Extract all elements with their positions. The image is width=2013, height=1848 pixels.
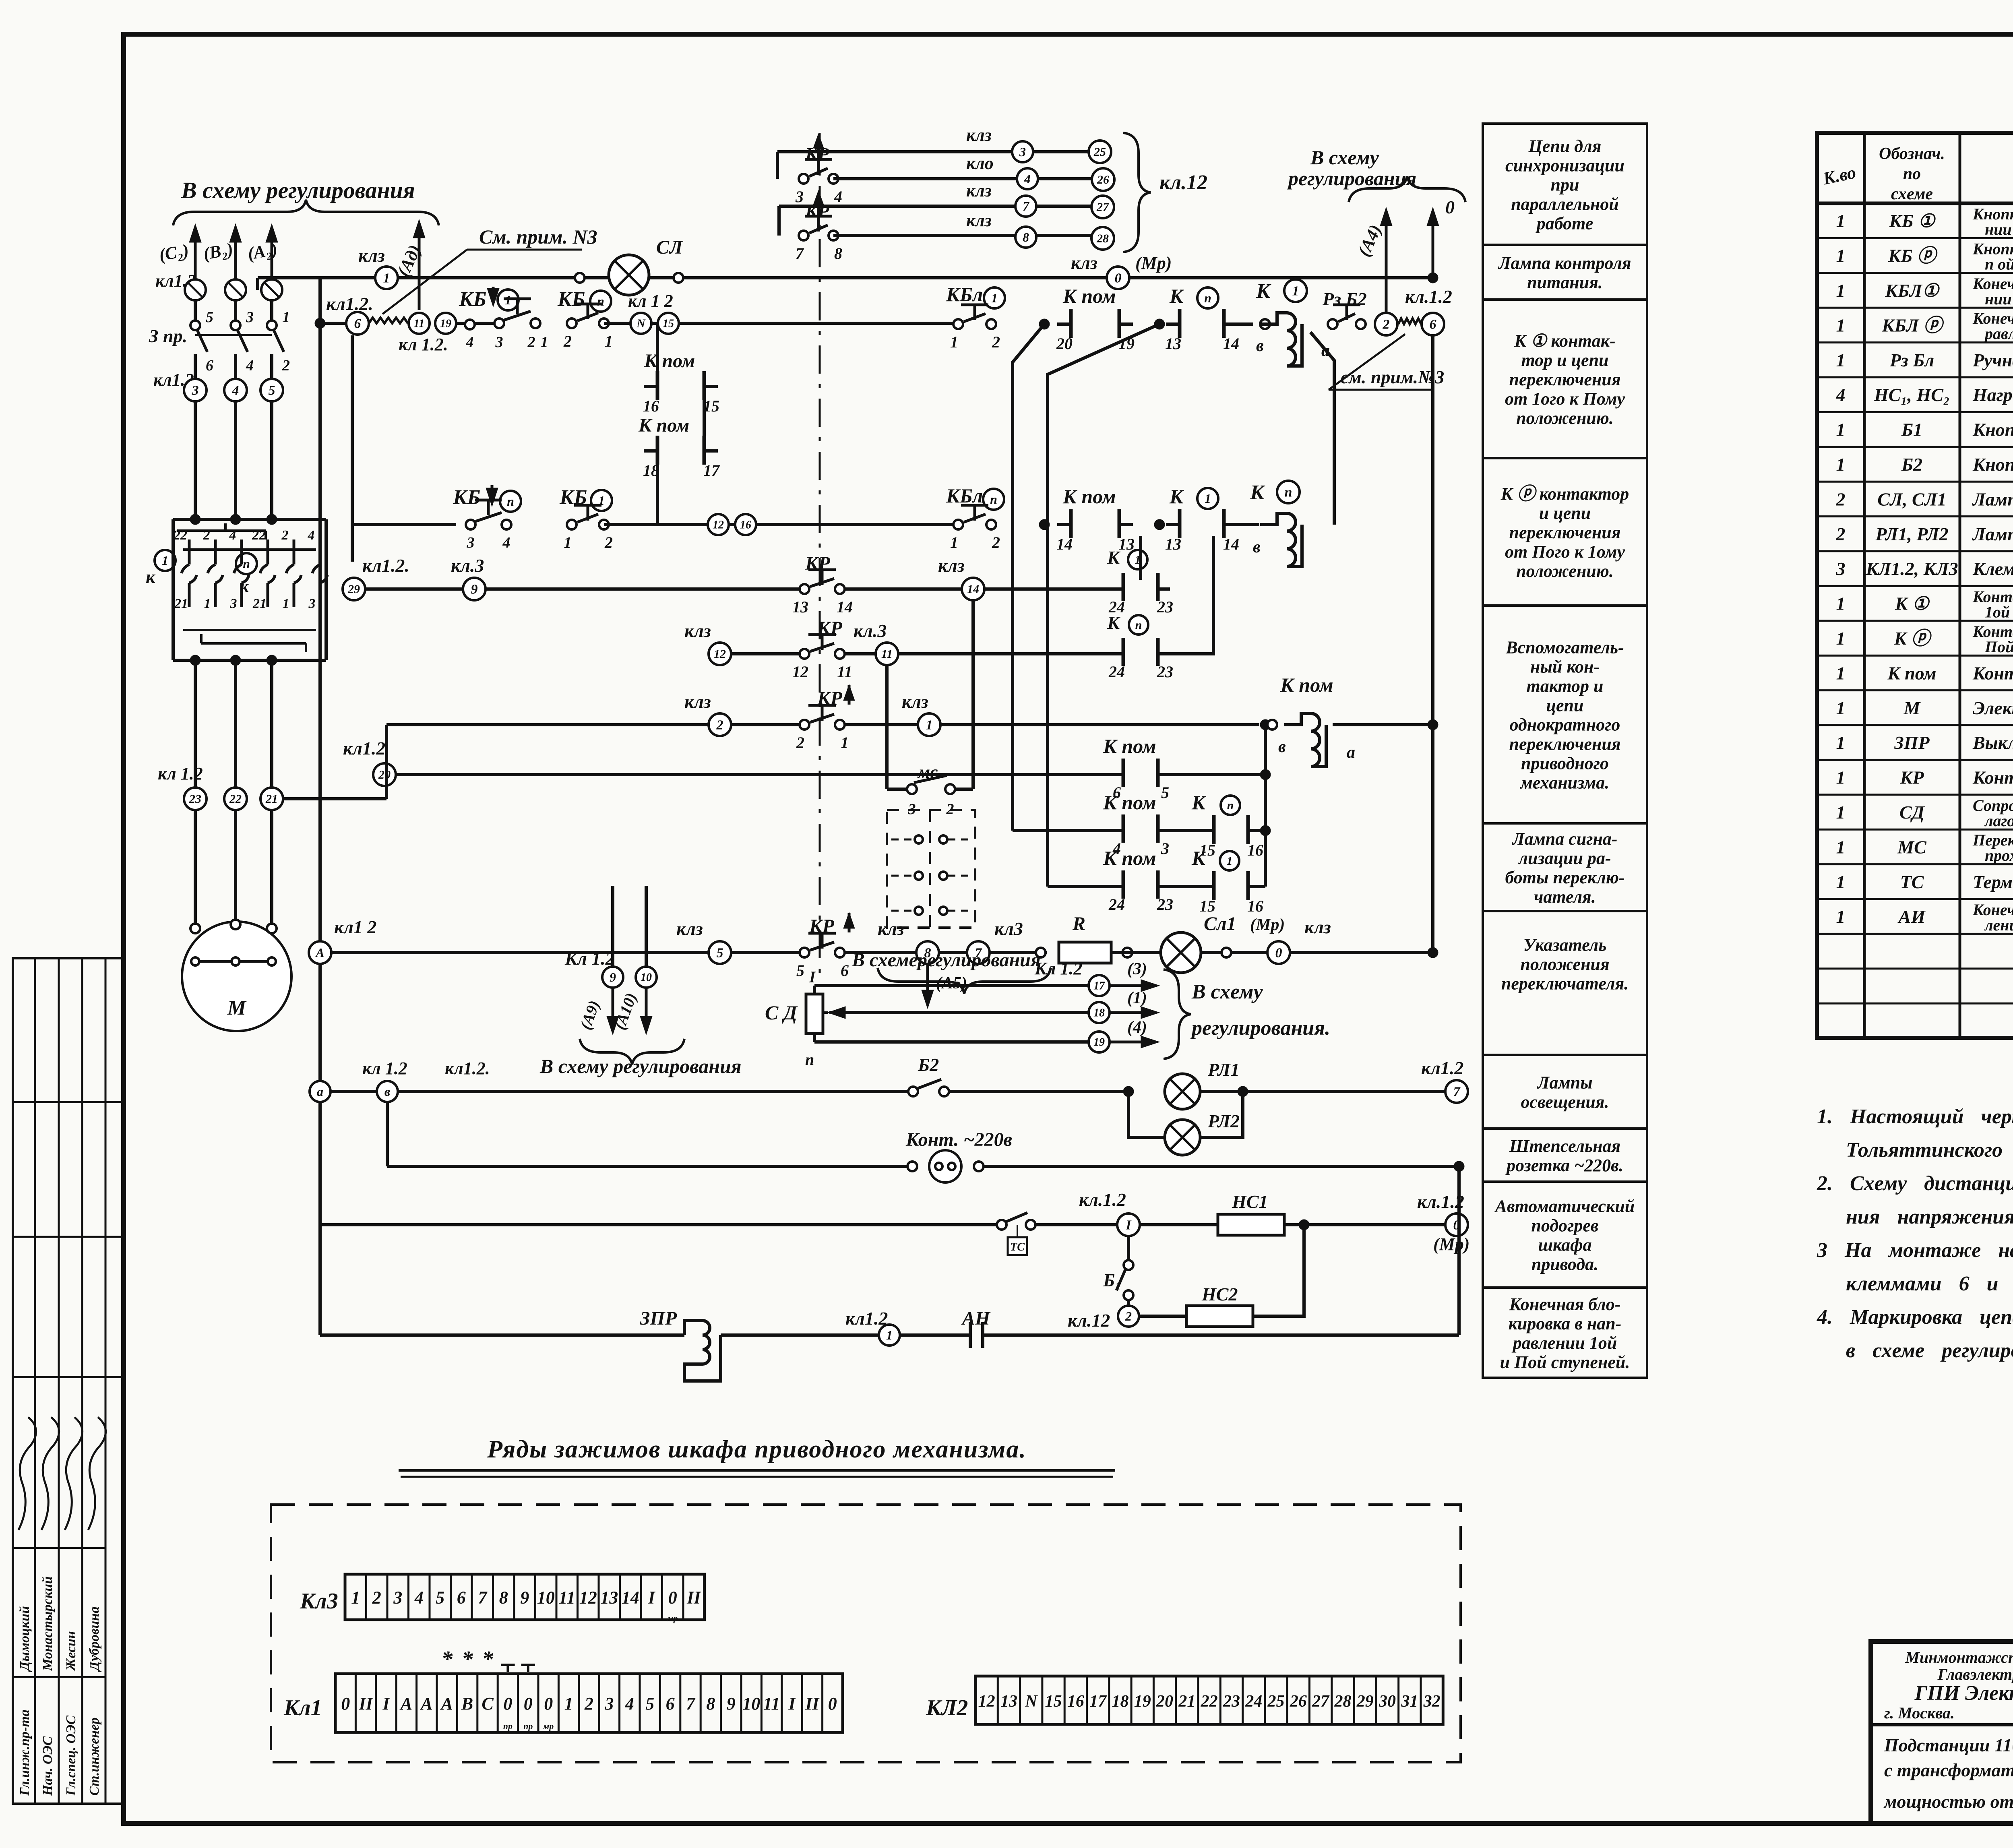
svg-text:кл1 2: кл1 2 (334, 917, 376, 937)
svg-text:R: R (1072, 913, 1085, 934)
svg-text:Конт. ~220в: Конт. ~220в (905, 1129, 1012, 1150)
junction row2 (1039, 519, 1050, 530)
controller contact KR 7-8 sync (796, 190, 842, 263)
svg-text:Жесин: Жесин (64, 1631, 79, 1672)
svg-text:СЛ, СЛ1: СЛ, СЛ1 (1877, 489, 1947, 509)
svg-text:Пой ступени.: Пой ступени. (1984, 638, 2013, 656)
svg-text:прохождения мертвых ступеней: прохождения мертвых ступеней (1985, 846, 2013, 864)
svg-text:лагометра.: лагометра. (1984, 812, 2013, 830)
svg-text:п ой ступени.: п ой ступени. (1985, 255, 2013, 273)
terminal rows title (399, 1436, 1115, 1477)
svg-text:6: 6 (354, 316, 361, 331)
svg-text:4: 4 (502, 534, 510, 551)
svg-text:1: 1 (1836, 802, 1846, 823)
svg-text:9: 9 (471, 582, 478, 597)
svg-text:КБ: КБ (557, 288, 585, 311)
svg-text:0: 0 (544, 1694, 553, 1714)
svg-text:1: 1 (1836, 872, 1846, 892)
svg-text:К: К (1191, 847, 1207, 869)
title block (1871, 1641, 2013, 1823)
svg-text:1: 1 (283, 596, 289, 611)
svg-text:7: 7 (686, 1694, 696, 1714)
svg-text:положению.: положению. (1516, 408, 1614, 428)
svg-text:привода.: привода. (1531, 1255, 1598, 1274)
svg-text:0: 0 (1115, 271, 1122, 286)
svg-text:Цепи для: Цепи для (1528, 136, 1602, 156)
svg-text:1: 1 (1836, 246, 1846, 266)
svg-text:Нагревательные сопротивления: Нагревательные сопротивления (1972, 384, 2013, 405)
svg-text:0: 0 (828, 1694, 837, 1714)
terminal kl1.2 (I) (1079, 1189, 1140, 1236)
protection trip ZPR (640, 1308, 721, 1381)
svg-text:11: 11 (837, 663, 852, 681)
svg-text:положению.: положению. (1516, 561, 1614, 581)
svg-text:8: 8 (499, 1588, 508, 1608)
svg-text:пр: пр (503, 1721, 513, 1731)
dead-step switch MC (887, 600, 975, 928)
svg-text:2: 2 (584, 1694, 593, 1714)
svg-text:2: 2 (372, 1588, 381, 1608)
svg-text:К: К (1256, 280, 1271, 303)
svg-text:В схему регулирования: В схему регулирования (539, 1055, 742, 1077)
wire row2 mid (604, 523, 958, 526)
wire row6 (396, 769, 1271, 780)
contact K (1) 24-23 (1107, 536, 1173, 616)
svg-text:шкафа: шкафа (1538, 1235, 1591, 1255)
svg-text:5: 5 (645, 1694, 654, 1714)
svg-text:С Д: С Д (765, 1001, 798, 1024)
svg-text:2. Схему дистанционного: 2. Схему дистанционного и автоматическог… (1817, 1172, 2013, 1195)
svg-text:Кнопка: Кнопка (1972, 420, 2013, 440)
svg-text:МС: МС (1897, 837, 1927, 857)
svg-text:3: 3 (393, 1588, 402, 1608)
svg-text:5: 5 (1161, 783, 1169, 802)
terminals kl1.2 (9)(10) with arrows (539, 886, 742, 1077)
svg-text:а: а (317, 1084, 323, 1099)
svg-text:клз: клз (1304, 917, 1331, 937)
svg-text:23: 23 (1157, 895, 1173, 914)
aux contactor Kpom contact 20-19 (1056, 285, 1135, 353)
svg-text:мощностью от 25 до 63 МВа: мощностью от 25 до 63 МВа (1883, 1791, 2013, 1812)
signal lamp SL1 (1161, 913, 1236, 973)
svg-text:26: 26 (1097, 173, 1109, 186)
svg-text:1: 1 (1836, 663, 1846, 683)
terminal kl1.2 (a) (310, 1058, 407, 1102)
svg-text:параллельной: параллельной (1511, 194, 1619, 214)
svg-text:регулирования.: регулирования. (1190, 1017, 1330, 1040)
svg-text:28: 28 (1334, 1692, 1351, 1711)
thermostat TS (997, 1213, 1035, 1255)
svg-text:27: 27 (1312, 1692, 1330, 1711)
svg-text:3: 3 (604, 1694, 614, 1714)
svg-text:переключения: переключения (1509, 734, 1620, 754)
svg-text:14: 14 (967, 583, 979, 596)
wire lamp row (331, 951, 1066, 954)
svg-text:Ручная блокировка: Ручная блокировка (1972, 350, 2013, 370)
svg-text:17: 17 (1093, 980, 1105, 992)
svg-text:равлении 1ой: равлении 1ой (1511, 1333, 1617, 1353)
svg-text:1: 1 (926, 718, 933, 733)
terminal kl1.2 (b) (377, 1058, 490, 1102)
see note 3 flag lower (1329, 334, 1444, 390)
terminal kl3 (5) (676, 918, 731, 964)
terminal kl1.2 (29) (343, 555, 409, 600)
svg-text:0: 0 (341, 1694, 350, 1714)
svg-text:в: в (1256, 337, 1264, 355)
svg-text:кл1.2.: кл1.2. (445, 1058, 490, 1078)
svg-text:II: II (686, 1588, 701, 1608)
svg-text:14: 14 (1056, 535, 1073, 553)
wire left vertical feeder (318, 278, 322, 1335)
terminal kl1 2 (A) (309, 917, 376, 964)
svg-text:1: 1 (1836, 280, 1846, 301)
aux contactor coil Kpom (1267, 674, 1438, 767)
aux contact Kpom 16-15 (643, 324, 719, 415)
svg-text:нии 1ой ступени.: нии 1ой ступени. (1985, 220, 2013, 238)
svg-text:положения: положения (1520, 955, 1609, 974)
svg-text:в: в (384, 1084, 390, 1099)
svg-text:В схему: В схему (1310, 146, 1379, 169)
contactor coil K (1) (1256, 279, 1330, 366)
wire row5 (386, 719, 1271, 730)
svg-text:23: 23 (1157, 598, 1173, 616)
svg-text:4: 4 (229, 528, 236, 543)
terminal kl1.2 (0) Mp right (1417, 1191, 1469, 1254)
svg-text:кл.3: кл.3 (854, 620, 887, 641)
svg-text:7: 7 (1453, 1085, 1461, 1100)
svg-text:3: 3 (795, 188, 804, 206)
svg-text:1: 1 (1836, 837, 1846, 857)
svg-text:кл.12: кл.12 (1159, 171, 1207, 194)
svg-text:клз: клз (684, 691, 711, 712)
svg-text:В: В (461, 1694, 473, 1714)
svg-text:НС1: НС1 (1232, 1191, 1268, 1212)
svg-text:23: 23 (1223, 1692, 1240, 1711)
svg-text:клеммами 6 и 11,: клеммами 6 и 11, 2 и 0 снять. (1846, 1272, 2013, 1295)
svg-text:от Пого к 1ому: от Пого к 1ому (1505, 542, 1625, 562)
SD wire 1 to (17) (814, 959, 1159, 996)
svg-text:К пом: К пом (1062, 285, 1116, 307)
svg-text:клз: клз (938, 555, 965, 576)
svg-text:22: 22 (1201, 1692, 1218, 1711)
svg-text:кл 1.2: кл 1.2 (362, 1058, 407, 1078)
svg-text:при: при (1551, 175, 1579, 195)
svg-text:25: 25 (1093, 145, 1106, 159)
svg-text:Контроллер: Контроллер (1972, 767, 2013, 788)
wire ZPR row (320, 1166, 1459, 1335)
circuit description column (1483, 124, 1647, 1378)
svg-text:Гл.инж.пр-та: Гл.инж.пр-та (17, 1710, 32, 1796)
svg-text:ния напряжения: ния напряжения см. лист ЭЛ-12 (1846, 1205, 2013, 1228)
left margin stamp table (13, 958, 124, 1804)
svg-text:13: 13 (1000, 1692, 1017, 1711)
svg-text:28: 28 (1096, 232, 1109, 245)
svg-text:Электродвигатель: Электродвигатель (1973, 698, 2013, 718)
contactor coil K (p) (1250, 481, 1302, 566)
controller contact KR 13-14 (792, 553, 853, 616)
svg-text:К: К (1169, 285, 1184, 307)
terminal kl3 (9) (451, 555, 486, 600)
svg-text:К: К (1250, 481, 1265, 504)
svg-text:0: 0 (1445, 197, 1455, 217)
svg-text:21: 21 (252, 596, 267, 611)
svg-text:1: 1 (204, 596, 211, 611)
svg-text:К пом: К пом (1887, 663, 1936, 683)
svg-text:Гл.спец. ОЭС: Гл.спец. ОЭС (64, 1716, 79, 1796)
svg-text:22: 22 (173, 528, 187, 543)
svg-text:К ⓟ контактор: К ⓟ контактор (1500, 484, 1629, 504)
svg-text:п: п (243, 556, 250, 571)
svg-text:питания.: питания. (1527, 273, 1603, 292)
svg-text:1: 1 (605, 332, 613, 350)
svg-text:РЛ2: РЛ2 (1207, 1111, 1240, 1131)
svg-text:Термостат: Термостат (1973, 872, 2013, 892)
svg-text:РЛ1: РЛ1 (1207, 1059, 1240, 1080)
svg-text:1: 1 (1836, 593, 1846, 614)
note reference see note 3 upper (382, 225, 597, 314)
svg-text:32: 32 (1423, 1692, 1441, 1711)
svg-text:16: 16 (1247, 841, 1263, 859)
svg-text:КБ ①: КБ ① (1889, 211, 1936, 231)
svg-text:14: 14 (1223, 535, 1239, 553)
svg-text:16: 16 (1247, 897, 1263, 915)
svg-text:кл.1.2: кл.1.2 (1079, 1189, 1126, 1210)
svg-text:N: N (1025, 1692, 1038, 1711)
equipment table header (1821, 141, 2013, 205)
svg-text:переключения: переключения (1509, 523, 1620, 542)
svg-text:3: 3 (1019, 145, 1026, 159)
contact K (1) 13-14 row2 (1165, 485, 1239, 553)
phase input (B2) (202, 224, 242, 321)
svg-text:1: 1 (841, 734, 849, 752)
terminal circles kl1.2 (23)(22)(21) (158, 764, 283, 810)
svg-text:кл.3: кл.3 (451, 555, 484, 576)
svg-text:клз: клз (676, 918, 703, 939)
svg-text:12: 12 (579, 1588, 597, 1608)
svg-text:19: 19 (440, 318, 451, 330)
svg-text:22: 22 (229, 792, 242, 806)
svg-text:Б2: Б2 (1901, 454, 1922, 475)
terminal kl3 (1) (902, 691, 940, 736)
svg-text:К пом: К пом (1103, 735, 1156, 757)
aux contact Kpom 4-3 (1103, 791, 1170, 858)
svg-text:(1): (1) (1127, 989, 1147, 1007)
svg-text:К пом: К пом (638, 415, 689, 436)
svg-text:10: 10 (641, 972, 652, 984)
svg-text:6: 6 (666, 1694, 675, 1714)
svg-text:схеме: схеме (1891, 185, 1933, 203)
svg-text:5: 5 (206, 309, 213, 326)
wire kl1.2 21 link (283, 725, 386, 799)
svg-text:1ой ступени.: 1ой ступени. (1985, 603, 2013, 621)
wire descender to row8 (1048, 324, 1159, 887)
button KB (p) (453, 485, 521, 551)
svg-text:15: 15 (1199, 897, 1215, 915)
svg-text:ТС: ТС (1900, 872, 1924, 892)
svg-text:11: 11 (558, 1588, 575, 1608)
svg-text:14: 14 (1223, 335, 1239, 353)
terminal strip КЛ2 (926, 1676, 1443, 1724)
svg-text:боты переклю-: боты переклю- (1505, 868, 1624, 887)
svg-text:4: 4 (625, 1694, 634, 1714)
svg-text:А: А (440, 1694, 453, 1714)
svg-text:6: 6 (206, 357, 213, 374)
svg-text:КЛ2: КЛ2 (926, 1695, 968, 1720)
svg-text:п: п (597, 294, 604, 308)
svg-text:17: 17 (703, 461, 720, 480)
svg-text:КБл: КБл (946, 283, 983, 306)
terminal kl3 (11) (854, 620, 898, 665)
button KB (1) (459, 287, 548, 351)
svg-text:КБ: КБ (453, 486, 480, 509)
svg-text:приводного: приводного (1521, 754, 1609, 773)
terminal strip КЛ3 (300, 1574, 705, 1623)
svg-text:7: 7 (478, 1588, 488, 1608)
svg-text:1: 1 (886, 1328, 893, 1342)
svg-text:3: 3 (246, 309, 254, 326)
svg-text:в: в (1253, 538, 1261, 556)
wire row3 (354, 587, 1111, 591)
svg-text:9: 9 (610, 970, 616, 984)
svg-text:20: 20 (1056, 335, 1073, 353)
svg-text:Кл 1.2: Кл 1.2 (564, 948, 615, 969)
phase input (A2) (246, 224, 279, 321)
svg-text:24: 24 (1108, 895, 1125, 914)
phase input (C2) (157, 224, 201, 321)
motor M (182, 920, 291, 1031)
svg-text:К пом: К пом (644, 350, 695, 372)
svg-text:Монастырский: Монастырский (40, 1576, 55, 1671)
svg-text:АН: АН (961, 1308, 991, 1329)
svg-text:2: 2 (992, 533, 1000, 552)
svg-text:3 На монтаже на: 3 На монтаже на клеммнике Кл 1.2 перемыч… (1817, 1239, 2013, 1262)
svg-text:4: 4 (308, 528, 315, 543)
svg-text:15: 15 (663, 318, 674, 330)
work lamp RL2 branch (1128, 1091, 1243, 1155)
svg-text:1: 1 (1836, 767, 1846, 788)
svg-text:1: 1 (991, 291, 998, 305)
svg-text:клз: клз (358, 245, 385, 266)
contact K (1) 15-16 (1191, 847, 1263, 915)
label to regulation scheme top-left (173, 177, 439, 225)
wire RL row (331, 1090, 1445, 1093)
svg-text:работе: работе (1535, 214, 1593, 234)
svg-text:К ①: К ① (1895, 593, 1930, 614)
svg-text:п: п (990, 492, 997, 506)
svg-text:ГПИ Электропроект: ГПИ Электропроект (1914, 1682, 2013, 1705)
svg-text:1: 1 (1836, 906, 1846, 927)
svg-text:14: 14 (837, 598, 853, 616)
heater HC2 (1139, 1225, 1304, 1327)
svg-text:К пом: К пом (1103, 847, 1156, 869)
svg-text:кл 1.2: кл 1.2 (158, 764, 203, 783)
svg-text:24: 24 (1245, 1692, 1262, 1711)
svg-text:Лампы: Лампы (1536, 1073, 1592, 1093)
svg-text:кл1.2.: кл1.2. (326, 294, 373, 314)
svg-text:2: 2 (992, 333, 1000, 351)
svg-text:8: 8 (1023, 230, 1029, 244)
heater HC1 (1218, 1191, 1284, 1235)
brace kl.12 sync group (1123, 133, 1207, 252)
notes text (1817, 1105, 2013, 1362)
svg-text:кл1.2: кл1.2 (343, 738, 385, 759)
wire row2 feeder from (6) (352, 335, 456, 562)
svg-text:8: 8 (834, 244, 842, 263)
terminal kl1.2 (2) heater2 (1068, 1306, 1139, 1331)
svg-text:с трансформаторами: с трансформаторами (1884, 1760, 2013, 1780)
svg-text:I: I (788, 1694, 796, 1714)
resistor R (1036, 913, 1433, 963)
svg-text:1: 1 (1836, 732, 1846, 753)
svg-text:СД: СД (1899, 802, 1925, 823)
svg-text:11: 11 (881, 647, 893, 661)
svg-text:в схеме регулирования.: в схеме регулирования. (1846, 1339, 2013, 1362)
svg-text:0: 0 (668, 1588, 677, 1608)
svg-text:К пом: К пом (1062, 485, 1116, 508)
terminal kl1.2 (1) zpr row (845, 1308, 900, 1346)
svg-text:29: 29 (347, 583, 360, 596)
svg-text:2: 2 (604, 533, 613, 552)
contact K (p) 15-16 (1191, 791, 1263, 859)
svg-text:1: 1 (1836, 420, 1846, 440)
svg-text:кл1.2.: кл1.2. (362, 555, 409, 576)
svg-text:3: 3 (192, 383, 199, 398)
terminal kl3 (0) (Mp) on bus (1071, 252, 1172, 289)
brace to regulation right of SD (1164, 969, 1330, 1059)
sync line 1 with kl3 (3) to (25) (777, 125, 1111, 179)
right vertical bus (1428, 335, 1438, 958)
terminal kl3 (1) on bus (358, 245, 398, 289)
svg-text:пр: пр (523, 1721, 533, 1731)
svg-text:Нач. ОЭС: Нач. ОЭС (40, 1736, 55, 1796)
svg-text:Дубровина: Дубровина (87, 1606, 102, 1672)
svg-text:Кл3: Кл3 (300, 1589, 338, 1614)
terminal area dashed outline (271, 1505, 1461, 1762)
svg-text:Лампа сигнальная: Лампа сигнальная (1972, 489, 2013, 509)
wire row7 (1013, 825, 1271, 836)
svg-text:1: 1 (1836, 315, 1846, 335)
SD wire 2 to (18) (823, 989, 1159, 1023)
svg-text:3: 3 (495, 334, 503, 351)
svg-text:13: 13 (792, 598, 808, 616)
svg-text:(Мр): (Мр) (1135, 253, 1172, 273)
sync line 2 with klv (4) to (26) (833, 153, 1114, 191)
terminal kl1.2 (20) (343, 738, 396, 786)
svg-text:тор и цепи: тор и цепи (1521, 350, 1608, 370)
svg-text:0: 0 (524, 1694, 533, 1714)
svg-text:Указатель: Указатель (1523, 935, 1607, 955)
svg-text:4: 4 (834, 188, 842, 206)
junction row2 b (1154, 519, 1165, 530)
svg-text:2: 2 (1836, 489, 1846, 509)
svg-text:АИ: АИ (1897, 906, 1926, 927)
controller contact KR 12-11 (792, 618, 852, 681)
svg-text:Минмонтажспецстрой СССР: Минмонтажспецстрой СССР (1905, 1648, 2013, 1666)
terminal kl3 (12) (684, 620, 731, 665)
title block organization (1883, 1648, 2013, 1812)
svg-text:6: 6 (1430, 317, 1436, 332)
svg-text:В схему регулирования: В схему регулирования (181, 177, 415, 203)
svg-text:18: 18 (1112, 1692, 1128, 1711)
svg-text:п: п (1285, 485, 1292, 500)
svg-text:23: 23 (1157, 663, 1173, 681)
controller contact KR 5-6 (796, 912, 855, 980)
svg-text:КБЛ①: КБЛ① (1885, 280, 1940, 301)
svg-text:2: 2 (282, 357, 290, 374)
svg-text:Вспомогатель-: Вспомогатель- (1505, 638, 1624, 657)
svg-text:25: 25 (1267, 1692, 1285, 1711)
terminal kl1.2 (6) with jumper (326, 294, 448, 354)
